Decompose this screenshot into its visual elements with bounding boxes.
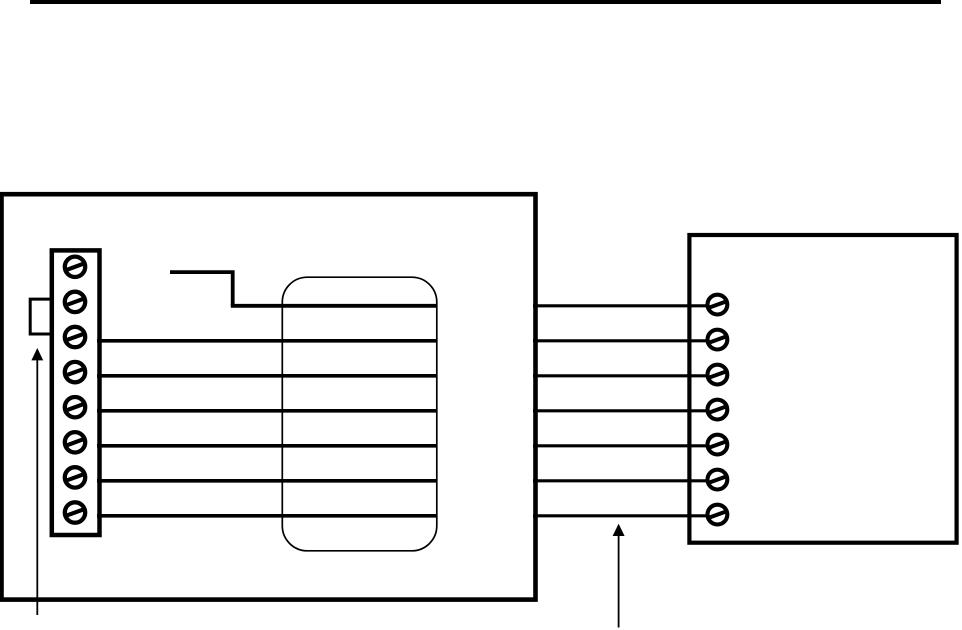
jumper W1 (between TB1-2 and TB1-3) [30, 299, 53, 334]
screw terminal TB1-6 [65, 432, 85, 452]
enclosure box U1 (left device) [2, 194, 536, 599]
wire step segment (to TB1-2) [170, 272, 233, 306]
screw terminal U2-6 [708, 470, 728, 490]
screw terminal TB1-5 [65, 397, 85, 417]
screw terminal TB1-1 [65, 257, 85, 277]
screw terminal U2-2 [708, 330, 728, 350]
terminal board U2 (right device) [689, 235, 956, 543]
wire 5 [97, 444, 437, 448]
screw terminal U2-7 [708, 505, 728, 525]
page header rule [30, 0, 941, 4]
arrow callout A2 (interconnect pointer) [613, 524, 625, 628]
screw terminal TB1-7 [65, 467, 85, 487]
screw terminal TB1-4 [65, 362, 85, 382]
wire 1 [231, 304, 437, 308]
cable bundle outline (rounded rectangle) [282, 277, 437, 551]
terminal block TB1 [52, 250, 100, 535]
wire 2 [97, 339, 437, 343]
screw terminal TB1-3 [65, 327, 85, 347]
interconnect wire 4 [533, 409, 717, 412]
wire 4 [97, 409, 437, 413]
interconnect wire 6 [533, 479, 717, 482]
screw terminal U2-4 [708, 400, 728, 420]
screw terminal U2-3 [708, 365, 728, 385]
interconnect wire 1 [533, 304, 717, 307]
screw terminal TB1-8 [65, 502, 85, 522]
interconnect wire 7 [533, 514, 717, 517]
interconnect wire 2 [533, 339, 717, 342]
interconnect wire 5 [533, 444, 717, 447]
arrow callout A1 (jumper pointer) [31, 348, 43, 615]
wire 7 [97, 514, 437, 518]
wire 6 [97, 479, 437, 483]
wire 3 [97, 374, 437, 378]
screw terminal U2-5 [708, 435, 728, 455]
interconnect wire 3 [533, 374, 717, 377]
screw terminal TB1-2 [65, 292, 85, 312]
screw terminal U2-1 [708, 295, 728, 315]
